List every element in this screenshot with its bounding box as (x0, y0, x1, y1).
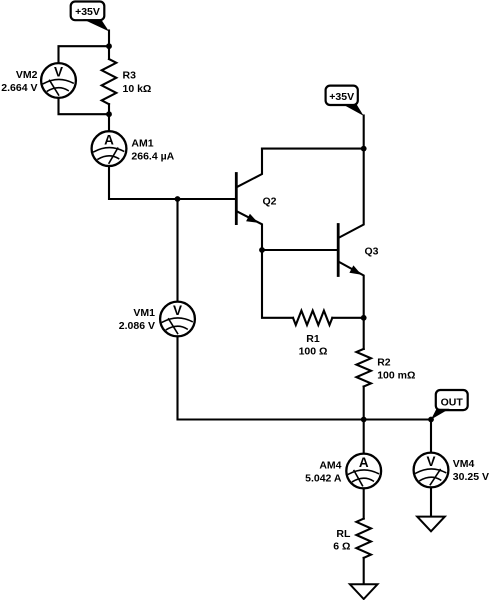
svg-text:A: A (359, 455, 369, 470)
junction dot Q2e/Q3b (259, 247, 265, 253)
svg-text:100 mΩ: 100 mΩ (377, 369, 415, 381)
svg-text:10 kΩ: 10 kΩ (123, 83, 152, 95)
svg-text:OUT: OUT (441, 396, 464, 408)
svg-text:266.4 µA: 266.4 µA (131, 150, 174, 162)
svg-text:A: A (104, 133, 114, 148)
node dot top-left (106, 43, 112, 49)
transistor Q3 collector (339, 149, 364, 238)
junction dot bus/R2 (361, 417, 367, 423)
ammeter AM1 (92, 131, 127, 166)
junction dot top rail (361, 146, 367, 152)
wire +35V right to rail node (363, 116, 365, 149)
transistor Q2 emitter (237, 212, 262, 251)
junction dot R1/R2 (361, 315, 367, 321)
svg-text:+35V: +35V (75, 6, 100, 18)
svg-text:V: V (173, 303, 182, 318)
svg-text:RL: RL (336, 528, 351, 540)
svg-text:30.25 V: 30.25 V (453, 471, 489, 483)
wire node to VM2 top (59, 46, 110, 63)
transistor Q3 emitter (339, 262, 364, 318)
wire junction A to Q2 base (178, 198, 237, 200)
svg-text:AM4: AM4 (319, 460, 341, 472)
wire junction A down to VM1 (176, 199, 178, 302)
ground (under VM4) (417, 517, 445, 532)
power flag +35V (left) (71, 2, 109, 32)
svg-text:100 Ω: 100 Ω (299, 346, 328, 358)
svg-text:R2: R2 (377, 357, 391, 369)
svg-text:R1: R1 (306, 333, 320, 345)
wire VM4 to ground (430, 487, 432, 516)
svg-text:Q2: Q2 (263, 195, 277, 207)
svg-text:6 Ω: 6 Ω (333, 541, 350, 553)
Q2 emitter arrow (246, 214, 258, 223)
voltmeter VM4 (414, 453, 449, 488)
svg-text:2.664 V: 2.664 V (1, 82, 37, 94)
wire VM2 bottom to node (59, 98, 110, 114)
wire Q2 emitter node to Q3 base (262, 249, 338, 251)
svg-text:V: V (54, 64, 63, 79)
svg-text:R3: R3 (123, 70, 137, 82)
ground (under RL) (350, 584, 378, 599)
wire AM4 to RL (363, 488, 365, 518)
wire VM1 bottom to output bus (178, 336, 432, 419)
resistor RL (356, 519, 371, 558)
output flag OUT (431, 390, 468, 420)
wire AM1 bottom to junction A (109, 166, 178, 199)
power flag +35V (right) (326, 86, 364, 116)
wire from +35V flag to node (108, 31, 110, 47)
wire node down to R1 left (262, 250, 293, 318)
Q3 emitter arrow (349, 265, 361, 274)
transistor Q2 collector (237, 149, 262, 187)
svg-text:5.042 A: 5.042 A (305, 472, 342, 484)
junction dot bus/OUT (428, 417, 434, 423)
svg-text:AM1: AM1 (131, 138, 153, 150)
transistor Q2 base bar (235, 174, 238, 224)
wire OUT node down to VM4 (430, 420, 432, 453)
svg-text:2.086 V: 2.086 V (119, 320, 155, 332)
svg-text:VM1: VM1 (133, 307, 155, 319)
voltmeter VM1 (160, 302, 195, 337)
transistor Q3 base bar (337, 225, 340, 276)
junction dot A (175, 196, 181, 202)
svg-text:Q3: Q3 (365, 245, 379, 257)
top wire Q2 collector to right rail (262, 148, 364, 150)
voltmeter VM2 (41, 63, 76, 98)
svg-text:+35V: +35V (329, 91, 354, 103)
wire node to AM1 (108, 114, 110, 131)
resistor R3 (108, 46, 110, 59)
svg-text:VM2: VM2 (16, 69, 38, 81)
svg-text:V: V (426, 454, 435, 469)
node dot R3 bottom (106, 111, 112, 117)
svg-text:VM4: VM4 (453, 458, 475, 470)
resistor R1 (293, 311, 332, 325)
wire bus to AM4 (363, 420, 365, 454)
resistor R2 (363, 318, 365, 349)
ammeter AM4 (346, 454, 381, 489)
